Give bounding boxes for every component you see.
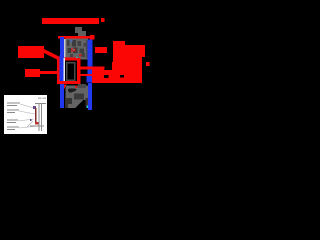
- top gland gray block: [66, 39, 89, 59]
- right blue bar bottom: [88, 83, 92, 110]
- blue-gray dot in gland: [70, 40, 73, 43]
- inset bracket maroon vertical: [35, 108, 36, 123]
- dark column right in gland: [86, 98, 89, 106]
- dark blob in gland: [72, 40, 76, 47]
- inset shaft line left: [38, 103, 41, 131]
- dark blob gland row2 b: [73, 48, 78, 54]
- red speckle in gland b: [79, 54, 82, 57]
- label box L1: [18, 46, 44, 58]
- left blue bar top: [60, 37, 64, 58]
- right red field D left part: [92, 67, 104, 84]
- inset bottom horizontal line: [30, 126, 44, 127]
- dark gray nub above bottom gland: [78, 84, 86, 88]
- right big red block C lower: [113, 57, 142, 63]
- red speckle in gland c: [86, 54, 89, 57]
- inset leader line 1: [20, 104, 34, 108]
- red arm upper (to right bar): [81, 67, 105, 70]
- bottom gland gray block: [66, 86, 89, 101]
- left blue bar bottom: [60, 84, 64, 108]
- inset leader line 3: [18, 119, 34, 121]
- left column blue bar middle: [60, 55, 64, 84]
- red arrowhead left bottom: [62, 85, 67, 90]
- right red field D middle lower part: [104, 70, 112, 83]
- light stripe right of top blue bar: [64, 39, 66, 58]
- dark column left in gland: [66, 98, 68, 108]
- small red dot far right: [146, 62, 150, 66]
- dark eye blob in bottom gland: [68, 88, 77, 92]
- inset leader line 4: [19, 126, 38, 128]
- dark blob gland right: [84, 43, 87, 47]
- right big red block C main: [113, 45, 145, 57]
- title red bar: [42, 18, 99, 24]
- dark blob gland row3 b: [82, 53, 86, 57]
- right red field D right part: [112, 62, 142, 83]
- dark band 1 in gland: [67, 40, 70, 46]
- red bit top of bottom gland: [75, 86, 78, 89]
- red top leader line: [58, 36, 92, 39]
- cyan speck at right bar bottom: [86, 106, 88, 109]
- label box L2: [25, 69, 40, 77]
- inset purple dot left: [30, 119, 32, 121]
- dark edge left of right blue bar: [86, 40, 88, 58]
- middle red line: [64, 58, 78, 61]
- inset leader line 2: [19, 111, 35, 114]
- red vertical bar right of box: [77, 58, 81, 82]
- cyan speck in gland: [73, 49, 74, 50]
- dark streak right of eye: [74, 94, 84, 100]
- inset bracket maroon bottom: [35, 122, 39, 125]
- inset label 2: [7, 110, 19, 111]
- right blue bar upper: [88, 40, 93, 68]
- right blue bar segment b (bulge): [87, 76, 93, 83]
- red band crossing right bar: [81, 74, 93, 76]
- leader line from L1 (diagonal): [44, 49, 60, 61]
- inset tiny gray caption top-right: [38, 98, 42, 100]
- right big red block C step: [113, 41, 125, 46]
- red top line end blob: [90, 35, 95, 40]
- leader line from L2: [40, 71, 59, 74]
- dark blob gland row3: [70, 54, 73, 57]
- bottom red line under box: [57, 81, 81, 84]
- inset label 3: [7, 120, 18, 121]
- dark blob gland row2 c: [80, 49, 85, 54]
- black word gap dash 2: [120, 75, 124, 78]
- inset white panel: [4, 95, 47, 134]
- title small blob: [101, 18, 105, 22]
- inset diagonal line bottom-left: [27, 121, 33, 127]
- dark blob gland row2 a: [68, 48, 72, 53]
- left column white stripe: [63, 58, 65, 82]
- right blue bar segment a: [88, 70, 93, 75]
- dark square in gland: [78, 41, 82, 46]
- inset top horizontal line: [35, 103, 46, 104]
- left column red edge: [57, 57, 60, 83]
- bottom gland lower part with diagonal cut: [66, 100, 84, 108]
- inset label 1: [7, 103, 20, 104]
- black word gap dash 1: [104, 75, 109, 78]
- cyan speck above box: [76, 57, 77, 58]
- hollow seal box: [67, 63, 75, 80]
- inset label 4: [7, 127, 19, 128]
- gland right lower extension: [77, 53, 88, 60]
- gray nub above gland: [75, 27, 82, 33]
- dark patch bottom-left of gland: [68, 98, 73, 104]
- right word blob B: [95, 47, 107, 53]
- inset shaft line right: [40, 103, 43, 131]
- inset bracket purple top: [33, 106, 36, 109]
- red speckle in gland a: [71, 49, 76, 52]
